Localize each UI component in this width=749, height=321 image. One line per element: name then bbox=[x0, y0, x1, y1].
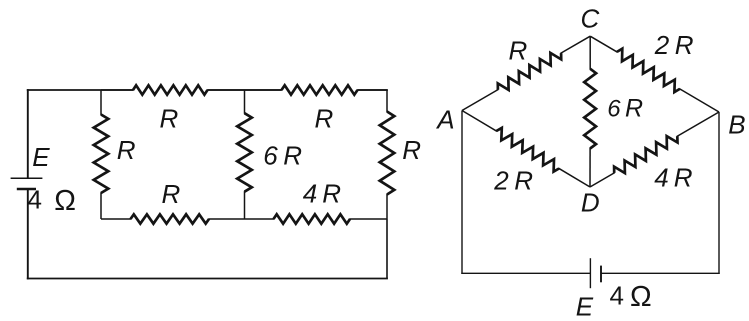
wire top rail segment left bbox=[27, 89, 134, 91]
svg-text:R: R bbox=[117, 135, 136, 165]
svg-text:R: R bbox=[625, 95, 643, 123]
svg-text:Ω: Ω bbox=[630, 281, 652, 313]
wire outer bottom bbox=[27, 278, 388, 280]
svg-text:4: 4 bbox=[28, 185, 42, 215]
wire top rail segment right bbox=[358, 89, 388, 91]
svg-text:R: R bbox=[322, 179, 341, 209]
svg-text:R: R bbox=[402, 135, 421, 165]
svg-text:C: C bbox=[581, 4, 600, 34]
wire battery top lead bbox=[27, 89, 29, 178]
resistor 6R middle vertical bbox=[244, 90, 246, 114]
svg-text:B: B bbox=[728, 110, 745, 140]
wire B down bbox=[718, 112, 720, 274]
wire right vertical lower bbox=[386, 219, 388, 279]
svg-text:6: 6 bbox=[263, 141, 278, 171]
svg-text:R: R bbox=[674, 163, 693, 193]
wire top rail segment mid bbox=[208, 89, 282, 91]
svg-text:6: 6 bbox=[607, 96, 621, 123]
svg-text:R: R bbox=[514, 166, 533, 196]
svg-text:R: R bbox=[283, 141, 302, 171]
resistor R right vertical bbox=[386, 90, 388, 112]
wire bottom left of battery bbox=[461, 272, 590, 274]
wire bottom right of battery bbox=[601, 272, 720, 274]
resistor 2R between A and D bbox=[462, 111, 497, 132]
svg-text:4: 4 bbox=[303, 179, 317, 209]
svg-text:2: 2 bbox=[493, 166, 509, 196]
resistor 2R between C and B bbox=[590, 36, 617, 52]
resistor R bottom-left horizontal bbox=[101, 218, 131, 220]
svg-text:2: 2 bbox=[654, 30, 670, 60]
battery E1 negative plate bbox=[17, 188, 36, 191]
svg-text:4: 4 bbox=[610, 280, 624, 310]
resistor R left vertical bbox=[100, 90, 102, 115]
svg-text:E: E bbox=[32, 142, 50, 172]
svg-text:D: D bbox=[581, 187, 600, 217]
resistor 4R bottom-right horizontal bbox=[245, 218, 275, 220]
resistor R top-left horizontal bbox=[101, 89, 134, 91]
resistor R top-right horizontal bbox=[245, 89, 283, 91]
battery E2 positive plate bbox=[589, 258, 591, 288]
svg-text:Ω: Ω bbox=[54, 185, 76, 217]
svg-text:R: R bbox=[509, 36, 528, 66]
resistor R between A and C bbox=[462, 89, 498, 110]
svg-text:A: A bbox=[435, 105, 454, 135]
svg-text:E: E bbox=[576, 292, 594, 321]
svg-text:R: R bbox=[675, 30, 694, 60]
battery E2 negative plate bbox=[600, 266, 602, 283]
resistor 6R between C and D bbox=[589, 36, 591, 69]
svg-text:R: R bbox=[162, 179, 181, 209]
wire battery bottom lead bbox=[27, 189, 29, 279]
svg-text:R: R bbox=[315, 104, 334, 134]
resistor 4R between D and B bbox=[590, 173, 615, 187]
svg-text:R: R bbox=[160, 104, 179, 134]
wire A down bbox=[461, 111, 463, 275]
battery E1 positive plate bbox=[11, 177, 43, 179]
svg-text:4: 4 bbox=[654, 163, 668, 193]
